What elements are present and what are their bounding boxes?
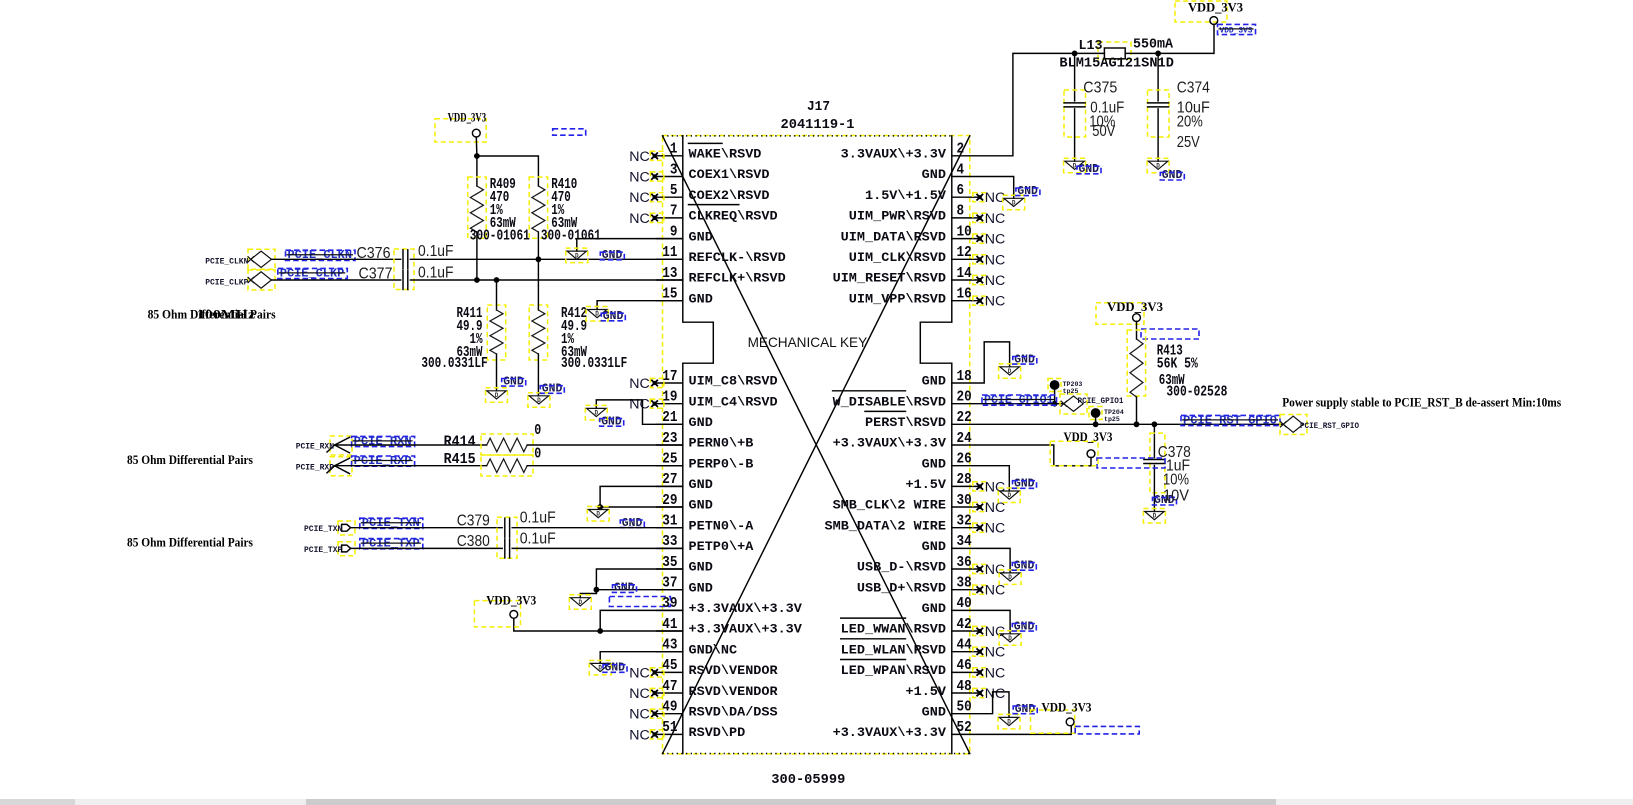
wire pin 29 GND [600, 507, 683, 510]
svg-text:USB_D+\RSVD: USB_D+\RSVD [857, 581, 947, 595]
svg-text:+3.3VAUX\+3.3V: +3.3VAUX\+3.3V [689, 602, 803, 616]
svg-text:GND: GND [689, 230, 714, 244]
bottom scrollbar corner segment [0, 799, 75, 805]
svg-text:VDD_3V3: VDD_3V3 [1064, 430, 1113, 444]
port PCIE_CLKN selection box [248, 249, 275, 269]
svg-text:D: D [1007, 492, 1011, 499]
svg-text:UIM_VPP\RSVD: UIM_VPP\RSVD [849, 292, 947, 306]
svg-text:R415: R415 [444, 452, 476, 468]
svg-text:+1.5V: +1.5V [906, 478, 947, 492]
pin 37 stub wire [657, 589, 683, 591]
pin 12 stub wire [952, 258, 980, 260]
capacitor C379 [505, 518, 510, 537]
pin 19 stub wire [657, 403, 683, 405]
overbar on W_DISABLE (pin 20) [833, 390, 906, 392]
wire pin 2 3.3VAUX to L13 net [952, 53, 1075, 155]
net marker box (blue dashed, pin 39) [609, 597, 670, 607]
svg-text:8: 8 [957, 204, 965, 220]
power symbol VDD_3V3 (R409/R410 pull-ups) [435, 111, 486, 142]
off-page port PCIE_CLKP [248, 272, 272, 288]
wire pin 50 GND [952, 692, 1009, 718]
wire VDD_3V3 to R409/R410 junction [475, 137, 478, 156]
wire R413 bottom to PERST net [1136, 397, 1138, 424]
overbar on LED_WPAN (pin 46) [841, 659, 906, 661]
wire PCIE_RXN to R414 [335, 444, 487, 446]
junction node L13/C374 [1155, 51, 1161, 57]
svg-text:UIM_CLK\RSVD: UIM_CLK\RSVD [849, 251, 947, 265]
svg-text:COEX1\RSVD: COEX1\RSVD [689, 168, 771, 182]
svg-text:0.1uF: 0.1uF [418, 243, 454, 260]
net label PCIE_RXN (blue struck) [352, 435, 415, 448]
connector mechanical-key cross line 1 [663, 136, 970, 754]
svg-text:NC: NC [985, 583, 1006, 599]
wire R415 to pin 25 PERP0 [527, 465, 683, 467]
connector mechanical-key cross line 2 [663, 136, 970, 754]
wire L13 left segment [1075, 52, 1105, 54]
pin 32 stub wire [952, 527, 980, 529]
svg-text:NC: NC [985, 521, 1006, 537]
svg-text:NC: NC [985, 232, 1006, 248]
net label PCIE_RXP (blue struck) [352, 455, 415, 468]
svg-text:50V: 50V [1092, 123, 1115, 140]
svg-text:L13: L13 [1079, 39, 1103, 54]
no-connect marker pin 46 [973, 665, 1006, 681]
wire pins 35/37 to ground symbol [580, 590, 596, 598]
pin 21 stub wire [657, 423, 683, 425]
wire R409 bottom to PCIE_CLKP net [476, 232, 478, 280]
C378 selection box [1150, 433, 1165, 493]
wire PCIE_CLKN port to C376 [271, 258, 400, 260]
ground (C374) [1147, 158, 1184, 182]
svg-text:PCIE_GPIO1: PCIE_GPIO1 [1078, 397, 1124, 406]
svg-text:300.0331LF: 300.0331LF [561, 356, 627, 372]
svg-text:56K 5%: 56K 5% [1157, 357, 1198, 373]
svg-text:RSVD\DA/DSS: RSVD\DA/DSS [689, 705, 779, 719]
svg-text:30: 30 [957, 493, 972, 509]
port PCIE_RST_GPIO selection box [1280, 415, 1307, 435]
wire pin 37 GND [596, 589, 682, 591]
R415 selection box [481, 455, 533, 476]
svg-text:D: D [594, 410, 598, 417]
svg-text:46: 46 [957, 658, 972, 674]
svg-text:1.5V\+1.5V: 1.5V\+1.5V [865, 189, 947, 203]
pin 42 stub wire [952, 630, 980, 632]
svg-text:UIM_C8\RSVD: UIM_C8\RSVD [689, 375, 779, 389]
junction node C378/PERST [1152, 421, 1158, 427]
svg-text:D: D [1008, 368, 1012, 375]
ground (pin 26) [998, 478, 1036, 503]
svg-text:NC: NC [985, 211, 1006, 227]
bar under COEX2 (pin 5) [689, 204, 739, 206]
pin 6 stub wire [952, 196, 980, 198]
svg-text:100MHz: 100MHz [197, 307, 256, 321]
svg-text:0: 0 [534, 447, 541, 463]
wire pin 43 GND [600, 652, 683, 664]
connector J17 body outline [663, 136, 970, 754]
capacitor C377 [403, 271, 408, 290]
wire C378 bottom to GND [1153, 466, 1155, 512]
no-connect marker pin 30 [973, 500, 1006, 516]
svg-text:C377: C377 [359, 265, 393, 282]
svg-text:VDD_3V3: VDD_3V3 [486, 594, 536, 608]
svg-text:0.1uF: 0.1uF [418, 265, 454, 282]
resistor R414 body [487, 438, 528, 452]
no-connect marker pin 38 [973, 583, 1006, 599]
junction node TP203/W_DISABLE [1052, 401, 1058, 407]
wire C379 to pin 31 PETN0 [512, 527, 683, 529]
svg-text:+1.5V: +1.5V [906, 685, 947, 699]
wire pin 40 GND [952, 610, 1010, 633]
svg-text:RSVD\VENDOR: RSVD\VENDOR [689, 664, 779, 678]
svg-text:VDD_3V3: VDD_3V3 [1107, 300, 1163, 314]
svg-text:D: D [578, 599, 582, 606]
svg-text:5: 5 [670, 183, 678, 199]
pin 10 stub wire [952, 238, 980, 240]
svg-text:RSVD\VENDOR: RSVD\VENDOR [689, 685, 779, 699]
svg-text:NC: NC [629, 190, 650, 206]
svg-text:D: D [1156, 162, 1160, 169]
net label PCIE_CLKN (blue struck) [286, 249, 356, 262]
R411 value labels [457, 306, 483, 361]
R409 selection box [468, 177, 486, 238]
pin 39 stub wire [657, 609, 683, 611]
R409 value labels [490, 177, 516, 232]
svg-text:GND: GND [922, 168, 947, 182]
port PCIE_TXP (arrow tag) [338, 542, 355, 556]
svg-text:3.3VAUX\+3.3V: 3.3VAUX\+3.3V [841, 148, 947, 162]
svg-text:10: 10 [957, 224, 972, 240]
svg-text:SMB_DATA\2 WIRE: SMB_DATA\2 WIRE [825, 519, 947, 533]
svg-text:GND: GND [689, 561, 714, 575]
wire pin 52 3.3VAUX to VDD_3V3 [952, 726, 1072, 735]
junction node R413/PERST [1134, 421, 1140, 427]
off-page port PCIE_CLKN [248, 251, 272, 267]
R413 value labels [1157, 344, 1198, 390]
pin 36 stub wire [952, 568, 980, 570]
no-connect marker pin 45 [629, 665, 664, 681]
pin 33 stub wire [657, 547, 683, 549]
svg-text:GND: GND [689, 499, 714, 513]
svg-text:GND: GND [689, 416, 714, 430]
svg-text:UIM_DATA\RSVD: UIM_DATA\RSVD [841, 230, 947, 244]
pin 49 stub wire [657, 713, 683, 715]
svg-text:UIM_PWR\RSVD: UIM_PWR\RSVD [849, 210, 947, 224]
svg-text:MECHANICAL KEY: MECHANICAL KEY [748, 335, 868, 350]
svg-text:NC: NC [985, 294, 1006, 310]
no-connect marker pin 17 [629, 376, 664, 392]
svg-text:PCIE_RXP: PCIE_RXP [296, 463, 334, 472]
svg-text:PERST\RSVD: PERST\RSVD [865, 416, 947, 430]
wire C375 bottom to GND [1074, 109, 1076, 161]
ground (pin 18) [999, 353, 1037, 378]
pin 14 stub wire [952, 279, 980, 281]
svg-text:0: 0 [534, 423, 541, 439]
off-page port PCIE_GPIO1 [1061, 396, 1084, 411]
resistor R410 body [532, 186, 545, 232]
junction node pins 27/29 GND [597, 504, 603, 510]
wire junction to R410 top [477, 156, 539, 186]
pin 35 stub wire [657, 568, 683, 570]
svg-text:D: D [495, 392, 499, 399]
power symbol VDD_3V3 (R413) [1096, 300, 1163, 324]
ground (pins 27/29) [587, 507, 644, 530]
svg-text:NC: NC [629, 170, 650, 186]
svg-text:NC: NC [985, 273, 1006, 289]
svg-text:1: 1 [670, 142, 678, 158]
svg-text:GND: GND [689, 581, 714, 595]
svg-text:2041119-1: 2041119-1 [781, 118, 855, 133]
no-connect marker pin 12 [973, 252, 1006, 268]
svg-text:28: 28 [957, 472, 972, 488]
no-connect marker pin 16 [973, 294, 1006, 310]
ground (C378) [1143, 494, 1176, 523]
overbar on LED_WLAN (pin 44) [841, 638, 906, 640]
junction node REFCLK+/R411 [494, 277, 500, 283]
wire C375 top [1074, 53, 1076, 101]
port PCIE_CLKP selection box [248, 270, 275, 290]
no-connect marker pin 6 [973, 190, 1006, 206]
svg-text:VDD_3V3: VDD_3V3 [448, 111, 487, 125]
pin 41 stub wire [657, 630, 683, 632]
wire C374 top [1157, 53, 1159, 101]
svg-text:+3.3VAUX\+3.3V: +3.3VAUX\+3.3V [833, 726, 947, 740]
svg-text:85 Ohm Differential Pairs: 85 Ohm Differential Pairs [127, 535, 253, 549]
svg-text:C380: C380 [457, 533, 490, 550]
svg-text:PERN0\+B: PERN0\+B [689, 437, 754, 451]
no-connect marker pin 5 [629, 190, 664, 206]
resistor R411 body [490, 310, 503, 354]
wire REFCLK- to R412 top [537, 259, 539, 310]
svg-text:tp25: tp25 [1104, 416, 1120, 423]
svg-text:300-01061: 300-01061 [541, 228, 601, 244]
svg-text:D: D [1073, 162, 1077, 169]
svg-text:+3.3VAUX\+3.3V: +3.3VAUX\+3.3V [689, 623, 803, 637]
svg-text:C375: C375 [1083, 80, 1117, 97]
svg-text:PCIE_RXN: PCIE_RXN [296, 443, 334, 452]
wire PERST to C378 top [1153, 424, 1155, 457]
resistor R412 body [532, 310, 545, 354]
inductor/ferrite L13 body [1098, 42, 1131, 59]
wire VDD_3V3 to R413 top [1136, 322, 1138, 340]
svg-text:NC: NC [629, 149, 650, 165]
svg-text:C379: C379 [457, 512, 490, 529]
pin 8 stub wire [952, 217, 980, 219]
power symbol VDD_3V3 (pins 39/41) [474, 594, 536, 627]
svg-text:RSVD\PD: RSVD\PD [689, 726, 746, 740]
wire junction to R409 top [476, 156, 478, 186]
pin 9 stub wire [657, 238, 683, 240]
pin 5 stub wire [657, 196, 683, 198]
svg-text:10%: 10% [1163, 471, 1189, 488]
wire pin 27 GND [600, 486, 683, 507]
svg-text:PCIE_TXP: PCIE_TXP [304, 546, 342, 555]
no-connect marker pin 51 [629, 727, 664, 743]
svg-text:14: 14 [957, 266, 972, 282]
resistor R409 body [470, 186, 483, 232]
svg-text:D: D [595, 311, 599, 318]
R411 selection box [487, 305, 505, 360]
R414 selection box [481, 434, 533, 455]
svg-text:SMB_CLK\2 WIRE: SMB_CLK\2 WIRE [833, 499, 946, 513]
wire PCIE_CLKP port to C377 [271, 279, 400, 281]
svg-text:COEX2\RSVD: COEX2\RSVD [689, 189, 771, 203]
wire pin 22 PERST to port PCIE_RST_GPIO [952, 423, 1284, 425]
wire pin 24 3.3VAUX to VDD_3V3 [952, 445, 1091, 466]
C375 selection box [1064, 90, 1086, 137]
svg-text:7: 7 [670, 204, 678, 220]
resistor R415 body [487, 459, 528, 473]
bottom scrollbar track [0, 799, 1633, 805]
svg-text:PCIE_CLKN: PCIE_CLKN [205, 258, 248, 267]
test point TP204 [1089, 407, 1124, 425]
svg-text:NC: NC [629, 211, 650, 227]
net label PCIE_TXN (blue struck) [360, 517, 423, 530]
net marker box (blue dashed, C378) [1097, 458, 1165, 468]
svg-text:J17: J17 [807, 99, 830, 115]
wire pin 21 GND [596, 400, 683, 424]
pin 25 stub wire [657, 465, 683, 467]
svg-text:R414: R414 [444, 434, 476, 450]
svg-text:LED_WLAN\RSVD: LED_WLAN\RSVD [841, 643, 947, 657]
svg-text:W_DISABLE\RSVD: W_DISABLE\RSVD [833, 395, 947, 409]
pin 3 stub wire [657, 176, 683, 178]
svg-text:D: D [1012, 200, 1016, 207]
ground (pin 50) [998, 703, 1037, 729]
test point TP203 [1048, 379, 1082, 404]
overbar on PERST (pin 22) [865, 410, 906, 412]
svg-text:GND: GND [922, 540, 947, 554]
net marker box (blue dashed, pin 52) [1075, 726, 1139, 734]
svg-text:C376: C376 [357, 245, 391, 262]
svg-text:GND: GND [922, 705, 947, 719]
wire pin 15 GND [597, 301, 683, 310]
svg-text:VDD_3V3: VDD_3V3 [1042, 701, 1092, 715]
svg-text:GND: GND [922, 602, 947, 616]
svg-text:PETP0\+A: PETP0\+A [689, 540, 754, 554]
svg-text:D: D [575, 252, 579, 259]
capacitor C380 [505, 539, 510, 558]
wire REFCLK+ to R411 top [496, 280, 498, 310]
pin 47 stub wire [657, 692, 683, 694]
svg-text:Power supply stable to PCIE_RS: Power supply stable to PCIE_RST_B de-ass… [1282, 395, 1561, 409]
net marker box (blue dashed, above connector) [553, 129, 586, 135]
svg-text:NC: NC [629, 707, 650, 723]
svg-text:NC: NC [629, 665, 650, 681]
svg-text:GND: GND [922, 375, 947, 389]
wire R410 bottom to PCIE_CLKN net [537, 232, 539, 259]
junction node TP204/PERST [1093, 421, 1099, 427]
svg-text:48: 48 [957, 679, 972, 695]
svg-text:GND: GND [689, 478, 714, 492]
svg-text:20%: 20% [1177, 113, 1203, 130]
no-connect marker pin 7 [629, 211, 664, 227]
pin 11 stub wire [657, 258, 683, 260]
svg-text:0.1uF: 0.1uF [520, 530, 556, 547]
svg-text:REFCLK+\RSVD: REFCLK+\RSVD [689, 272, 787, 286]
svg-text:D: D [598, 665, 602, 672]
pin 23 stub wire [657, 444, 683, 446]
wire C377 to pin 13 REFCLK+ [410, 279, 682, 281]
wire pin 9 GND [577, 239, 683, 252]
no-connect marker pin 10 [973, 232, 1006, 248]
net marker box (blue dashed, right of R413 VDD) [1141, 329, 1199, 339]
junction node REFCLK+/R409 [474, 277, 480, 283]
junction node pins 35/37 GND [594, 587, 600, 593]
svg-text:36: 36 [957, 555, 972, 571]
svg-text:25V: 25V [1177, 134, 1200, 151]
wire pin 20 W_DISABLE to port [952, 403, 1063, 405]
net label VDD_3V3 (blue struck, top right) [1218, 24, 1256, 35]
svg-text:PCIE_TXN: PCIE_TXN [304, 525, 342, 534]
overbar on WAKE (pin 1) [689, 142, 723, 144]
svg-text:44: 44 [957, 638, 972, 654]
svg-text:300-02528: 300-02528 [1166, 385, 1227, 401]
no-connect marker pin 3 [629, 170, 664, 186]
ground (pins 35/37) [569, 582, 636, 610]
R410 selection box [529, 177, 547, 238]
connector J17 selection box [663, 136, 970, 754]
no-connect marker pin 8 [973, 211, 1006, 227]
svg-text:10V: 10V [1163, 488, 1189, 505]
svg-text:38: 38 [957, 576, 972, 592]
ground (pin 4) [1003, 185, 1040, 210]
svg-text:UIM_RESET\RSVD: UIM_RESET\RSVD [833, 272, 947, 286]
ground (R411) [486, 375, 526, 402]
port PCIE_TXN (arrow tag) [338, 521, 355, 535]
pin 1 stub wire [657, 155, 683, 157]
svg-text:NC: NC [985, 252, 1006, 268]
svg-text:85 Ohm Differential Pairs: 85 Ohm Differential Pairs [127, 453, 253, 467]
svg-text:NC: NC [985, 500, 1006, 516]
ground (pin 40) [999, 620, 1036, 645]
port PCIE_GPIO1 selection box [1060, 394, 1087, 414]
wire pin 26 GND [952, 466, 1010, 491]
wire pin 18 GND [952, 342, 1010, 383]
svg-text:UIM_C4\RSVD: UIM_C4\RSVD [689, 395, 779, 409]
pin 27 stub wire [657, 485, 683, 487]
svg-text:300-05999: 300-05999 [771, 773, 845, 788]
wire pin 35 GND [596, 569, 682, 590]
R410 value labels [551, 177, 577, 232]
ground (pin 43) [589, 660, 627, 675]
port PCIE_RXP (chevron) [327, 457, 352, 476]
wire PCIE_RXP to R415 [335, 465, 487, 467]
pin 45 stub wire [657, 671, 683, 673]
ground (pin 9) [566, 248, 625, 263]
pin 31 stub wire [657, 527, 683, 529]
wire C374 bottom to GND [1157, 109, 1159, 161]
off-page port PCIE_RST_GPIO [1280, 416, 1303, 432]
svg-text:42: 42 [957, 617, 972, 633]
pin 48 stub wire [952, 692, 980, 694]
ground (pin 34) [999, 559, 1036, 584]
power symbol VDD_3V3 (pin 52) [1031, 701, 1092, 734]
wire C376 to pin 11 REFCLK- [410, 258, 682, 260]
svg-text:D: D [537, 397, 541, 404]
pin 7 stub wire [657, 217, 683, 219]
no-connect marker pin 19 [629, 397, 664, 413]
ground (C375) [1064, 158, 1101, 176]
power symbol VDD_3V3 (top right) [1175, 1, 1243, 25]
pin 16 stub wire [952, 300, 980, 302]
no-connect marker pin 28 [973, 479, 1006, 495]
resistor R413 body [1130, 339, 1143, 397]
C374 selection box [1148, 90, 1170, 137]
C379/C380 selection box [497, 517, 517, 558]
svg-text:PETN0\-A: PETN0\-A [689, 519, 754, 533]
junction node pins 39/41 [597, 628, 603, 634]
net label PCIE_GPIO1 (blue struck) [982, 394, 1057, 407]
